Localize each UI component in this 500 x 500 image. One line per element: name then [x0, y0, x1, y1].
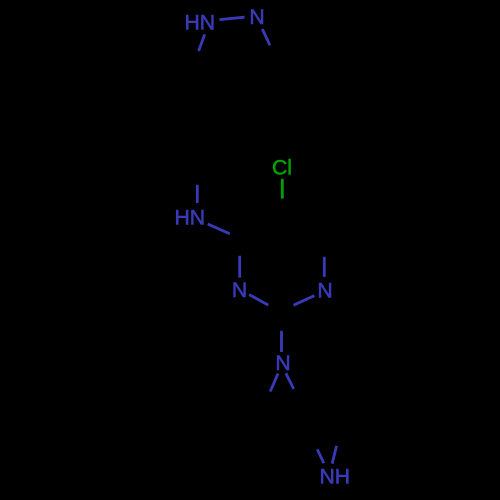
wire bond N1-C2 half (pyrimidine) — [294, 296, 315, 306]
wire bond NH(aniline)-C4(pyrimidine) half — [208, 224, 230, 234]
svg-text:N: N — [317, 279, 332, 302]
svg-text:NH: NH — [319, 466, 350, 489]
wire bond N1-C6 half (pyrimidine right) — [323, 257, 326, 277]
wire bond N(azetidine)-C2 half — [280, 331, 283, 352]
wire bond Cl-C5 half — [281, 179, 284, 199]
wire bond N2-C3 half (pyrazole) — [262, 29, 270, 45]
svg-text:N: N — [249, 6, 264, 29]
bond N1-N2 (pyrazole) — [220, 17, 245, 19]
wire bond N1-C7a half (pyrazole) — [199, 34, 205, 51]
wire bond N3-C2 half (pyrimidine) — [249, 295, 268, 306]
svg-text:N: N — [275, 352, 290, 375]
svg-text:HN: HN — [184, 11, 215, 34]
wire bond NH(bottom)-CH2 right half — [332, 446, 337, 464]
svg-text:Cl: Cl — [272, 157, 292, 180]
wire bond NH(aniline)-C4(indazole) half — [196, 185, 199, 203]
wire bond N(azetidine)-CH2 right half — [286, 373, 294, 389]
wire bond NH(bottom)-CH2 left half — [317, 449, 324, 463]
svg-text:HN: HN — [174, 207, 205, 230]
svg-text:N: N — [232, 279, 247, 302]
wire bond N(azetidine)-CH2 left half — [270, 374, 278, 392]
wire bond N3-C4 half (pyrimidine left) — [238, 256, 241, 278]
